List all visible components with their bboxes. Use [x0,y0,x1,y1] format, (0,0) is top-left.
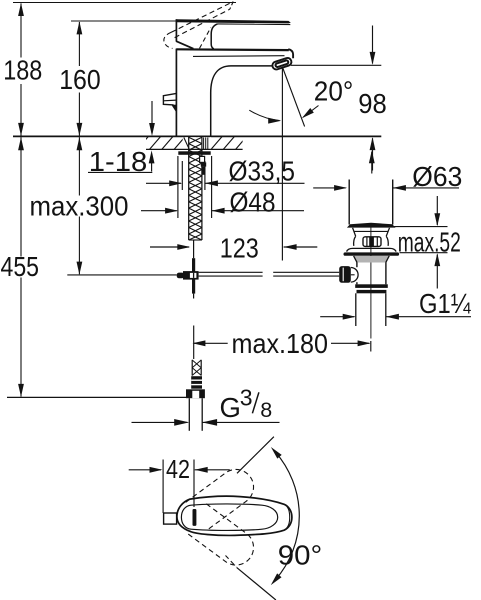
dimension dia 33.5 [146,182,181,184]
svg-text:Ø33,5: Ø33,5 [229,155,296,186]
extension line top (overall height ref, y=2.5) [13,2,236,4]
shank thread cross hatch [189,137,202,143]
threaded shank edges [188,137,190,240]
dashed raised lever lower line [175,9,230,37]
drain tailpipe walls [355,293,357,326]
max52 upper ref line [394,226,448,228]
dimension 42 [129,469,161,471]
dimension 455 vertical line [20,137,22,256]
ext lines dia 33.5 [181,161,183,190]
svg-text:188: 188 [3,55,42,86]
drain flange top [347,248,397,251]
tee fitting body [183,271,199,280]
max180 right ext line (drain centerline) [370,341,372,352]
counter bottom line [146,148,243,150]
gray under flange [354,256,390,263]
horizontal operating rod left segment [199,271,263,273]
pop-up knob mid line [163,99,176,102]
svg-text:1-18: 1-18 [89,146,148,177]
arc arrowhead top [269,445,282,459]
dimension max.180 [194,342,228,344]
knob top view [164,513,177,524]
clamp bolt on shank [200,156,205,162]
svg-text:Ø48: Ø48 [230,186,276,217]
mounting flange washer under counter [178,151,210,155]
svg-text:max.180: max.180 [232,328,329,359]
faucet lever blade (solid) [176,19,290,23]
flow direction arrow above drain [371,152,373,174]
aerator outer capsule [271,57,292,70]
pop-up rod below shank [193,240,195,258]
faucet underside / inner profile [211,66,273,136]
98 up arrow [372,138,374,170]
vertical marks right of thread in counter [203,137,205,149]
hose dia dimension arrows [132,421,188,423]
svg-text:3: 3 [240,385,253,411]
20 deg slanted stream line [283,68,305,127]
max.300 bottom extension line [67,274,176,276]
arc arrowhead bottom [269,573,282,587]
supply hose compression fitting [191,376,202,389]
faucet body inner top line [193,55,285,58]
svg-text:8: 8 [260,398,272,422]
drain shoulder dark wedge [347,223,396,228]
dimension 123 [150,246,189,248]
drain body lower band 2 [357,290,387,293]
shank diag in counter [184,137,189,149]
98 down arrow [372,26,374,64]
pop-up rod knob on faucet left [163,93,176,105]
white out behind shank [183,137,211,149]
pop-up knob wedge [171,105,176,113]
supply hose nut [186,389,205,398]
svg-text:max.52: max.52 [398,226,461,257]
98 top reference line [291,64,382,66]
handle inner capsule [181,504,277,531]
tee fitting vertical bar [192,258,195,293]
dashed handle rotated down [186,504,254,565]
shank bottom line [189,239,202,241]
handle right cap inner hug line [284,505,289,530]
dimension G1 1/4 [320,316,354,318]
455 bottom reference line [7,396,186,398]
20 deg arc arrow [249,110,279,120]
supply hose tube [188,398,190,431]
faucet body left edge [175,49,177,136]
aerator inner capsule [275,60,289,68]
drain collar [353,228,356,237]
max52 down arrow [436,196,438,225]
svg-text:123: 123 [220,233,259,264]
svg-text:160: 160 [59,64,100,95]
faucet body top edge [176,48,288,51]
drain knurl outer profile [354,236,356,246]
svg-text:42: 42 [166,454,190,484]
drain valve body walls [356,262,358,267]
ext lines dia 48 [177,156,179,218]
dimension 160 vertical line [78,22,80,66]
max52 up arrow [436,255,438,289]
dashed raised lever neck edge [200,28,211,49]
svg-text:max.300: max.300 [30,190,129,221]
dimension dia 63 [313,187,345,189]
countertop top line [13,135,381,137]
ball rod port nut [339,266,351,283]
drain center line [370,225,372,339]
dashed handle rotated up [186,469,254,530]
faucet lever left edge [175,19,177,41]
drain flange dark band [345,252,397,255]
countertop hatching [137,137,247,150]
dimension 188 vertical line [20,3,22,57]
45deg line lower [237,567,276,600]
max52 lower ref line [400,252,448,254]
horizontal operating rod right segment [273,271,339,273]
42 ext lines [162,460,164,514]
svg-text:20°: 20° [314,76,354,107]
dashed raised lever tip [230,2,233,10]
water stream vertical reference line x=282.4 [281,69,283,261]
lever blade bottom edge [218,23,291,26]
dimension dia 48 [141,210,177,212]
45deg line upper [237,437,274,474]
rod tail below fitting [193,294,195,299]
svg-text:98: 98 [358,88,387,119]
faucet lever neck right edge [211,24,217,49]
ball housing arc [351,268,358,283]
drain body lower band 1 [355,284,388,288]
drain knurl ribbed box [363,237,381,247]
handle paddle outline top view [177,496,292,535]
handle pivot tick [193,509,197,526]
max180 left ext line [193,326,195,360]
dashed raised lever rear arc [164,32,173,48]
extension line for 160 dim (y=21) [71,20,176,22]
faucet lever bottom-left slant [176,41,193,49]
svg-text:90°: 90° [278,540,323,571]
20 deg leader arrow on slanted line [303,106,318,118]
svg-text:G1¼: G1¼ [419,288,471,319]
dimension max.300 vertical line [78,137,80,195]
drain top tube walls [348,180,350,225]
dashed raised lever upper line [171,2,233,33]
drain body taper [354,256,357,263]
90 deg arc [275,452,299,580]
faucet spout end cap [288,49,293,58]
dimension 1-18 leader [88,171,152,173]
tee fitting left cap [177,273,185,279]
svg-text:Ø63: Ø63 [412,161,462,192]
supply hose threaded tip [191,360,193,376]
svg-text:G: G [220,392,241,423]
svg-text:455: 455 [1,251,40,282]
